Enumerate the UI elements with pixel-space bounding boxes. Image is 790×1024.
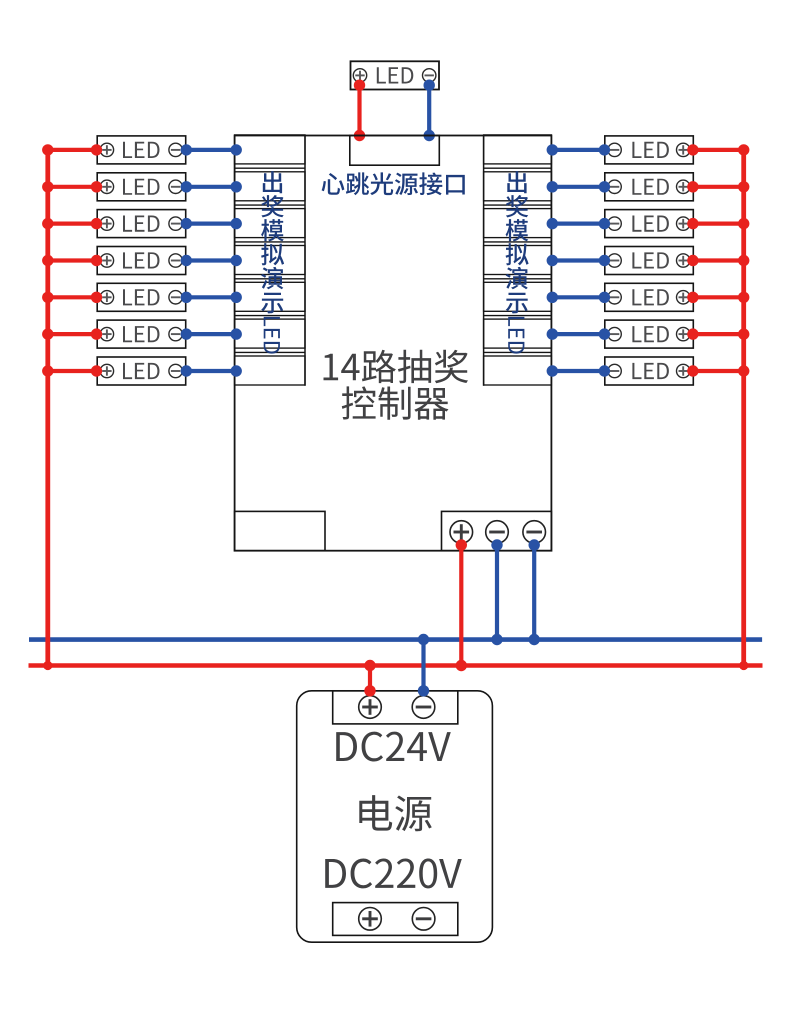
junction: right red bus to bottom red bus (739, 661, 748, 670)
wire red: red bus to PS1 plus (364, 660, 375, 697)
wire red: bus to L4 plus (42, 255, 102, 266)
wire blue: controller GND1 to blue bus (491, 539, 502, 645)
red bus horizontal (+) (29, 663, 763, 668)
label DC220V (325, 859, 462, 889)
wire blue: L3 minus to strip pin 3 (181, 218, 242, 229)
wire blue: strip pin to L12 minus (547, 292, 611, 303)
connector J0: heartbeat light interface socket (350, 136, 440, 166)
wire blue: L4 minus to strip pin 4 (181, 255, 242, 266)
wire red: bus to L5 plus (42, 292, 102, 303)
LED L3 box (97, 210, 186, 238)
wire red: bus to L3 plus (42, 218, 102, 229)
wire blue: strip pin to L9 minus (547, 181, 611, 192)
controller bottom-left module box (235, 511, 325, 550)
wire red: bus to L7 plus (42, 365, 102, 376)
label vertical: prize simulation demo LED (right strip) (506, 171, 529, 354)
wire blue: L1 minus to strip pin 1 (181, 144, 242, 155)
LED L14 box (605, 357, 694, 385)
label DC24V (336, 732, 451, 762)
PS1 AC input terminal block (333, 903, 458, 936)
wire blue: L7 minus to strip pin 7 (181, 365, 242, 376)
label: controller line 2 (342, 386, 449, 419)
junction: left red bus to bottom red bus (43, 661, 52, 670)
wire blue: strip pin to L11 minus (547, 255, 611, 266)
LED L1 box (97, 136, 186, 164)
red bus vertical right (+) (741, 151, 746, 666)
LED L5 box (97, 283, 186, 311)
terminal strip left: 7-pin LED output header (235, 135, 305, 386)
label power supply (dian yuan) (359, 795, 432, 831)
LED L4 box (97, 247, 186, 275)
red bus vertical left (+) (45, 151, 50, 666)
wire red: L13 plus to right bus (687, 328, 749, 339)
wire red: L11 plus to right bus (687, 255, 749, 266)
wire red: bus to L6 plus (42, 328, 102, 339)
LED L8 box (605, 136, 694, 164)
label: heartbeat light interface (xin tiao guang yuan jie kou) (322, 172, 465, 195)
wire blue: L5 minus to strip pin 5 (181, 292, 242, 303)
wire blue: strip pin to L10 minus (547, 218, 611, 229)
label: 14-way lottery controller line 1 (324, 350, 469, 384)
wire red: bus to L1 plus (42, 144, 102, 155)
wire blue: L2 minus to strip pin 2 (181, 181, 242, 192)
wire red: L12 plus to right bus (687, 292, 749, 303)
wire blue: strip pin to L8 minus (547, 144, 611, 155)
LED L6 box (97, 320, 186, 348)
wire red: L10 plus to right bus (687, 218, 749, 229)
wire red: L9 plus to right bus (687, 181, 749, 192)
wire red: L14 plus to right bus (687, 365, 749, 376)
wire red: controller V+ to red bus (456, 539, 467, 671)
controller U1: 14-ch lottery controller body (235, 136, 552, 551)
LED L9 box (605, 173, 694, 201)
wire blue: strip pin to L14 minus (547, 365, 611, 376)
LED L11 box (605, 247, 694, 275)
wire blue: controller GND2 to blue bus (529, 539, 540, 645)
LED L2 box (97, 173, 186, 201)
wire blue: strip pin to L13 minus (547, 328, 611, 339)
LED L7 box (97, 357, 186, 385)
LED L10 box (605, 210, 694, 238)
wire blue: L0 minus to controller top (424, 80, 435, 142)
LED L13 box (605, 320, 694, 348)
wire blue: blue bus to PS1 minus (418, 634, 429, 697)
wire red: L8 plus to right bus (687, 144, 749, 155)
wire blue: L6 minus to strip pin 6 (181, 328, 242, 339)
blue bus horizontal (-) (29, 637, 762, 642)
power terminal block J8 on controller (442, 511, 552, 550)
PS1 DC24V output terminal block (333, 691, 458, 724)
wire red: L0 plus to controller top (354, 80, 365, 142)
wire red: bus to L2 plus (42, 181, 102, 192)
power supply PS1 box (297, 691, 493, 942)
terminal strip right: 7-pin LED output header (484, 135, 552, 386)
label vertical: prize simulation demo LED (left strip) (261, 171, 284, 354)
LED L12 box (605, 283, 694, 311)
LED connector L0 (heartbeat light) (351, 61, 440, 89)
